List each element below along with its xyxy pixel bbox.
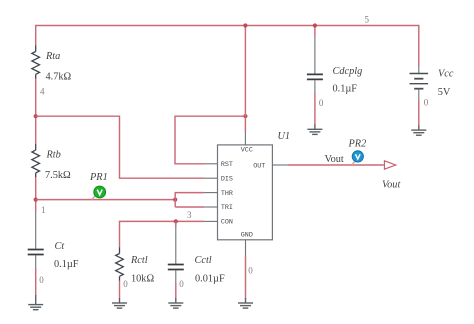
wire CON net node 3 (120, 221, 205, 247)
svg-text:RST: RST (221, 161, 233, 169)
svg-text:10kΩ: 10kΩ (131, 273, 154, 284)
node 4 junction dot (34, 114, 38, 118)
svg-text:THR: THR (221, 190, 233, 198)
battery Vcc (410, 66, 429, 100)
junction dot RST/VCC (243, 114, 247, 118)
wire top rail node 5 (36, 26, 419, 67)
svg-text:Cdcplg: Cdcplg (333, 66, 363, 77)
wire Cctl to ground (175, 283, 177, 299)
svg-text:3: 3 (187, 210, 192, 220)
capacitor Ct (28, 211, 44, 268)
svg-text:TRI: TRI (221, 204, 233, 212)
svg-text:0.01µF: 0.01µF (195, 273, 225, 284)
wire VCC-rail to RST (175, 116, 245, 164)
wire left rail node1 to Ct (35, 177, 37, 212)
ground (Ct) (28, 295, 43, 310)
svg-text:OUT: OUT (253, 162, 265, 170)
ground (battery) (411, 125, 426, 135)
svg-text:U1: U1 (278, 131, 291, 142)
ground (Rctl) (112, 298, 127, 308)
wire node1 to THR/TRI (36, 199, 176, 201)
wire battery to ground (418, 100, 420, 126)
Vout arrow (384, 161, 395, 169)
wire node4 to DIS (36, 116, 205, 178)
junction dot node 3 (174, 219, 178, 223)
svg-text:5V: 5V (438, 87, 451, 98)
pin stub RST (204, 163, 217, 165)
svg-text:PR1: PR1 (89, 172, 108, 183)
svg-text:GND: GND (241, 231, 253, 239)
wire VCC vertical (244, 26, 246, 132)
pin stub THR (204, 192, 217, 194)
svg-text:Vout: Vout (382, 180, 401, 191)
wire node3 down to Cctl (175, 221, 177, 227)
svg-text:Vcc: Vcc (438, 69, 454, 80)
wire to TRI (175, 206, 204, 208)
svg-text:7.5kΩ: 7.5kΩ (45, 170, 71, 181)
svg-text:0: 0 (123, 279, 128, 289)
node 1 junction dot (34, 198, 38, 202)
svg-text:Rtb: Rtb (46, 150, 61, 161)
resistor Rta (32, 46, 40, 79)
svg-text:0: 0 (179, 279, 184, 289)
svg-text:0.1µF: 0.1µF (333, 84, 358, 95)
probe PR2 (352, 151, 363, 165)
junction dot THR/TRI (173, 198, 177, 202)
svg-text:DIS: DIS (221, 175, 233, 183)
pin stub GND bottom (245, 240, 247, 256)
svg-text:1: 1 (41, 205, 46, 215)
svg-text:0.1µF: 0.1µF (54, 259, 79, 270)
pin stub OUT (272, 164, 288, 166)
junction dot top rail Cdcplg (313, 23, 317, 27)
wire OUT to Vout (288, 164, 384, 166)
svg-text:0: 0 (319, 98, 324, 108)
pin stub DIS (204, 177, 217, 179)
ground (Cdcplg) (307, 125, 322, 135)
svg-text:PR2: PR2 (348, 138, 367, 149)
wire GND to ground (245, 255, 247, 298)
capacitor Cdcplg (307, 26, 323, 94)
pin stub TRI (204, 206, 217, 208)
svg-text:CON: CON (221, 219, 233, 227)
svg-text:Rta: Rta (45, 51, 60, 62)
svg-text:4.7kΩ: 4.7kΩ (46, 71, 72, 82)
probe PR1 (92, 186, 106, 199)
svg-text:Ct: Ct (55, 241, 66, 252)
capacitor Cctl (168, 227, 184, 284)
junction dot top rail VCC (243, 23, 247, 27)
svg-text:0: 0 (248, 265, 253, 275)
ground (Cctl) (168, 298, 183, 308)
wire Rctl to ground (119, 281, 121, 299)
resistor Rctl (116, 247, 124, 280)
resistor Rtb (32, 144, 40, 177)
op-amp/IC U1 555 timer body (218, 145, 273, 240)
wire Cdcplg to ground (314, 93, 316, 125)
pin stub VCC top (244, 131, 246, 145)
svg-text:0: 0 (39, 275, 44, 285)
pin stub CON (204, 220, 217, 222)
ground (U1 GND) (238, 298, 253, 308)
wire left rail Rta-node4-Rtb (35, 78, 37, 144)
svg-text:VCC: VCC (241, 147, 253, 155)
svg-text:0: 0 (424, 98, 429, 108)
svg-text:4: 4 (40, 87, 45, 97)
svg-text:Vout: Vout (325, 154, 344, 165)
svg-text:Rctl: Rctl (130, 255, 148, 266)
svg-text:Cctl: Cctl (195, 255, 212, 266)
svg-text:5: 5 (365, 15, 370, 25)
wire to THR (175, 193, 204, 207)
wire Ct to ground (35, 268, 37, 295)
